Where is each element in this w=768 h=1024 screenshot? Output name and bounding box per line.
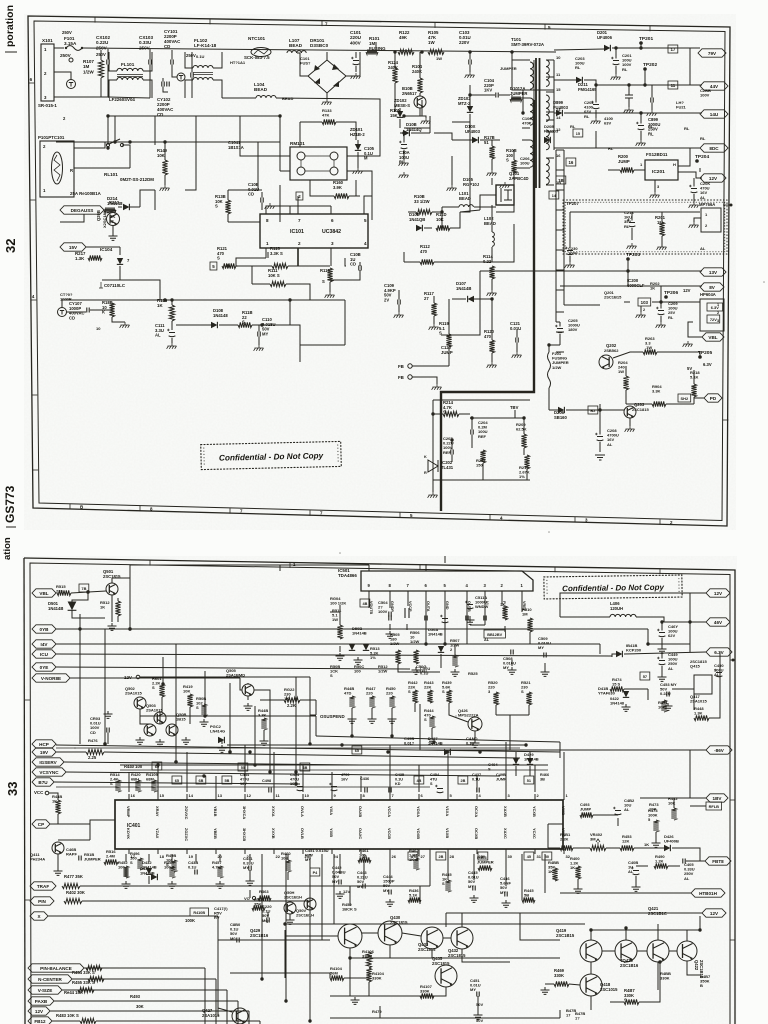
wire (171, 321, 173, 330)
diode D422 (623, 691, 629, 697)
junction (294, 782, 297, 785)
wire (432, 480, 434, 485)
svg-text:12V: 12V (709, 176, 718, 181)
wire (444, 598, 446, 644)
wire (107, 49, 109, 60)
wire (668, 865, 680, 867)
diode D431 (151, 874, 157, 880)
wire (310, 299, 345, 301)
svg-text:V-SIZE: V-SIZE (38, 988, 53, 993)
wire (615, 66, 617, 74)
wire (252, 283, 270, 285)
wire (514, 410, 516, 418)
wire (227, 214, 229, 222)
connector VBL out (702, 333, 724, 341)
wire rail stub (556, 149, 564, 151)
svg-text:C07110LC: C07110LC (104, 283, 126, 288)
wire (655, 832, 657, 840)
wire (185, 52, 193, 68)
wire (107, 65, 109, 98)
wire (471, 418, 473, 430)
wire bus 973 (230, 972, 330, 974)
wire (569, 245, 571, 249)
connector DEGAUSS (60, 206, 104, 214)
wire (315, 716, 317, 736)
svg-text:1W: 1W (436, 56, 442, 61)
net label 2Bb (436, 852, 446, 860)
wire (644, 69, 646, 85)
wire (637, 950, 647, 952)
wire I4V bus (56, 643, 600, 645)
svg-text:72V: 72V (710, 317, 717, 322)
wire (391, 708, 393, 716)
wire neutral return (276, 98, 380, 116)
wire (398, 296, 400, 300)
junction (228, 750, 231, 753)
wire (617, 818, 619, 826)
wire pin feed (157, 765, 159, 792)
wire (513, 182, 515, 205)
ground R469 (541, 987, 550, 994)
wire (559, 742, 561, 752)
capacitor C880 (237, 938, 239, 943)
ground C218 (627, 243, 637, 249)
svg-text:46V: 46V (714, 620, 723, 625)
wire (419, 886, 421, 904)
junction (627, 83, 630, 86)
resistor R507 (452, 655, 457, 667)
wire (491, 353, 493, 362)
svg-text:5B: 5B (224, 779, 229, 783)
transformer T101 secondary winding (546, 158, 549, 184)
svg-text:16: 16 (568, 160, 573, 165)
svg-text:250V: 250V (186, 53, 196, 58)
wire (469, 114, 471, 122)
wire (273, 792, 275, 800)
zone tick (32, 394, 38, 396)
connector TRAF (30, 882, 56, 890)
capacitor C104 (496, 93, 498, 98)
zone mark (732, 659, 735, 662)
wire (280, 155, 290, 157)
wire (162, 78, 164, 82)
net label P4 (310, 868, 320, 876)
zone tick (730, 659, 735, 661)
wire (661, 236, 663, 244)
wire (191, 52, 193, 73)
resistor R149 (162, 160, 167, 175)
svg-text:1BV: 1BV (713, 796, 723, 801)
svg-text:C49B0.01?: C49B0.01? (404, 736, 415, 746)
wire (289, 206, 291, 214)
wire (678, 148, 700, 166)
resistor R214 (443, 411, 459, 416)
resistor R445 (522, 897, 535, 902)
connector 14V (700, 110, 728, 118)
wire rail (689, 750, 691, 798)
wire (547, 824, 549, 848)
wire (229, 683, 231, 752)
svg-text:15: 15 (576, 132, 580, 136)
junction (78, 627, 81, 630)
svg-text:1: 1 (266, 241, 269, 246)
junction (268, 770, 271, 773)
resistor R453 (620, 845, 634, 850)
wire (474, 731, 476, 740)
wire (452, 121, 470, 123)
diode D10X (472, 137, 478, 143)
transformer T101 primary winding (530, 140, 533, 167)
confidential stamp box 2 (544, 575, 682, 599)
wire (407, 598, 409, 606)
diode D50B (349, 644, 355, 650)
wire (330, 248, 332, 266)
svg-text:C511A1000UWNDW: C511A1000UWNDW (475, 595, 489, 609)
svg-text:JUMPER: JUMPER (500, 66, 517, 71)
wire (267, 912, 269, 918)
net label 4Bc (300, 763, 310, 771)
wire (563, 792, 565, 800)
svg-text:OCXB: OCXB (474, 828, 479, 839)
junction (402, 114, 405, 117)
wire (287, 872, 289, 880)
RM101 contact (330, 152, 338, 160)
connector 79V (698, 49, 726, 57)
junction (86, 590, 89, 593)
wire (102, 272, 120, 280)
ground R113 (325, 292, 335, 298)
IC501 pin stub 8 (389, 591, 391, 598)
wire (418, 794, 420, 800)
wire (548, 823, 563, 825)
wire (492, 224, 514, 262)
net label 4Bb (414, 776, 424, 784)
wire (159, 712, 161, 724)
resistor R204 (623, 376, 628, 390)
wire (554, 79, 576, 81)
svg-text:17: 17 (131, 854, 136, 859)
wire (254, 706, 256, 765)
net label 7B (79, 584, 89, 592)
wire (185, 80, 193, 98)
wire (171, 338, 173, 343)
wire (466, 598, 468, 610)
wire (570, 211, 700, 213)
wire (403, 133, 405, 143)
transistor Q421 (647, 940, 669, 962)
zone tick (94, 17, 96, 23)
wire (636, 865, 648, 867)
capacitor C449 (659, 661, 666, 665)
test point TP202 (643, 62, 657, 71)
ground C441 (246, 878, 255, 885)
wire pin feed (389, 745, 391, 792)
wire (627, 259, 629, 271)
svg-text:65: 65 (175, 779, 179, 783)
capacitor C451 (477, 992, 479, 997)
ground R201 (657, 244, 667, 250)
wire (336, 122, 356, 140)
resistor R121 (222, 263, 236, 268)
svg-text:GS773: GS773 (3, 485, 17, 523)
wire (252, 325, 259, 332)
net label 45 (524, 852, 534, 860)
svg-text:C50G0.18U: C50G0.18U (416, 664, 427, 674)
T101 secondary pin 16 (546, 157, 554, 159)
junction (522, 416, 525, 419)
ground C451 (474, 1012, 483, 1019)
wire (460, 122, 470, 212)
wire (330, 995, 434, 997)
wire (548, 388, 550, 410)
svg-text:12V: 12V (124, 675, 132, 680)
connector V-NOISE (32, 674, 70, 682)
IC401 bottom pin 22 (273, 849, 275, 854)
wire (402, 933, 421, 936)
wire (320, 195, 334, 197)
resistor R498 (171, 860, 176, 872)
wire (228, 221, 260, 223)
terminal 12V (136, 675, 140, 679)
inductor L107 (287, 51, 306, 53)
svg-text:RL: RL (608, 146, 614, 151)
svg-text:RL101: RL101 (104, 172, 118, 177)
ground Q504 (136, 737, 145, 744)
svg-text:PD: PD (710, 396, 717, 401)
wire (280, 170, 290, 172)
connector 46V (706, 618, 730, 626)
wire (693, 370, 695, 384)
svg-text:R454 33K S: R454 33K S (72, 970, 95, 975)
wire (445, 913, 447, 927)
wire (115, 141, 165, 143)
junction (614, 46, 617, 49)
junction (688, 620, 691, 623)
test point TP201 (639, 36, 653, 45)
junction (660, 620, 663, 623)
wire (425, 564, 427, 571)
wire (651, 103, 653, 111)
wire (236, 265, 272, 267)
capacitor C437 (477, 788, 479, 793)
junction (443, 642, 446, 645)
wire (480, 139, 500, 141)
svg-text:6.3V: 6.3V (714, 650, 724, 655)
IC501 pin stub 4 (466, 591, 468, 598)
IC401 bottom pin 30 (505, 849, 507, 854)
wire (553, 60, 555, 150)
wire (411, 132, 430, 134)
wire pin drop (148, 854, 150, 862)
svg-text:R402 30K: R402 30K (66, 890, 85, 895)
wire (289, 914, 291, 917)
capacitor C121 (516, 338, 518, 343)
transformer T101 secondary winding (546, 60, 549, 86)
ground R447 (368, 716, 377, 723)
wire (389, 854, 391, 884)
wire pin8 (266, 206, 290, 214)
wire (634, 847, 664, 849)
transistor Q427 (232, 1008, 248, 1024)
wire (109, 80, 117, 98)
wire (164, 142, 166, 160)
wire (389, 792, 391, 800)
svg-text:R493: R493 (130, 994, 141, 999)
svg-text:15V: 15V (69, 245, 78, 250)
capacitor CY102b (167, 82, 169, 87)
wire (451, 180, 453, 185)
resistor R363 (258, 895, 271, 900)
resistor R460 (285, 860, 290, 872)
wire (165, 142, 258, 190)
resistor R113 (327, 268, 332, 282)
wire (626, 403, 640, 405)
capacitor C453 (667, 692, 669, 697)
wire (424, 227, 432, 229)
wire (629, 418, 631, 426)
resistor R442 (412, 690, 417, 703)
wire pin feed (128, 772, 130, 792)
svg-text:0YE: 0YE (40, 665, 49, 670)
ground Q10B (421, 118, 431, 124)
junction (294, 782, 297, 785)
junction (253, 763, 256, 766)
wire (442, 206, 459, 208)
diode D206 (558, 407, 564, 413)
wire (688, 322, 702, 337)
svg-text:DEGAUSS: DEGAUSS (71, 208, 94, 213)
junction (103, 742, 106, 745)
wire (434, 261, 492, 263)
capacitor C205 (557, 329, 564, 333)
IC401 bottom pin 20 (215, 849, 217, 854)
wire (89, 824, 91, 840)
svg-text:ICU: ICU (40, 652, 49, 657)
wire (248, 1011, 250, 1024)
wire (447, 854, 449, 880)
junction (113, 140, 116, 143)
transistor Q429 (338, 924, 362, 948)
svg-text:FS12BD11: FS12BD11 (646, 152, 668, 157)
wire (394, 83, 396, 112)
net label 2B (458, 776, 468, 784)
wire (512, 60, 522, 90)
confidential stamp box (201, 441, 342, 469)
connector V-SIZE (28, 986, 62, 994)
resistor R521 (526, 692, 531, 705)
capacitor C447 (659, 633, 666, 637)
wire (559, 742, 561, 758)
resistor R601 (159, 684, 164, 697)
wire (404, 128, 430, 133)
wire (554, 147, 596, 149)
net label 72V (707, 315, 720, 323)
wire (339, 854, 341, 874)
ground C103 (465, 72, 475, 78)
junction (174, 760, 177, 763)
svg-text:RFLB: RFLB (709, 804, 720, 809)
svg-text:2.25: 2.25 (88, 755, 97, 760)
wire (448, 362, 450, 366)
wire (505, 792, 507, 800)
svg-text:OCXA: OCXA (474, 806, 479, 817)
wire relay to RM101 (235, 141, 280, 143)
wire (129, 578, 131, 593)
zone tick (149, 560, 151, 566)
terminal FB1 (408, 364, 412, 368)
svg-text:50V: 50V (476, 1018, 483, 1023)
wire (628, 98, 630, 107)
svg-text:S: S (111, 219, 114, 224)
svg-text:3: 3 (717, 319, 719, 323)
wire (492, 261, 514, 263)
transistor Q201 2SC1815 (107, 213, 120, 226)
wire (471, 435, 473, 449)
wire (451, 156, 453, 180)
svg-text:14U: 14U (710, 112, 719, 117)
svg-text:Q50B1B15: Q50B1B15 (176, 712, 187, 722)
inductor FL101a (117, 68, 143, 71)
resistor R481 (560, 845, 573, 850)
test point TP204 (695, 154, 709, 163)
svg-text:TRAF: TRAF (37, 884, 49, 889)
svg-text:TP206: TP206 (664, 290, 678, 296)
wire (470, 624, 485, 626)
svg-text:3HXCB: 3HXCB (242, 828, 247, 841)
net label RFLB (706, 802, 722, 810)
resistor R263 (643, 349, 657, 354)
svg-text:ZOZXC: ZOZXC (184, 828, 189, 841)
wire (556, 321, 560, 323)
wire (491, 247, 493, 262)
wire (661, 666, 663, 674)
zone tick (33, 469, 39, 471)
svg-text:XAXC: XAXC (503, 828, 508, 839)
ground R114 (487, 290, 497, 296)
connector FBT8 (705, 857, 731, 865)
junction (524, 743, 527, 746)
test point TP203 (626, 252, 640, 261)
wire (345, 258, 346, 266)
wire (624, 688, 648, 690)
relay RM101 (290, 147, 347, 180)
wire (625, 366, 627, 376)
wire (425, 610, 427, 644)
svg-text:PAXB: PAXB (35, 999, 48, 1004)
wire (452, 298, 466, 300)
svg-text:VCCB: VCCB (387, 828, 392, 839)
connector VBL (32, 589, 56, 597)
svg-text:2: 2 (717, 311, 719, 315)
FL102 core (193, 73, 213, 75)
IC401 bottom pin 19 (186, 849, 188, 854)
capacitor CY101 (171, 60, 173, 65)
wire (62, 300, 160, 308)
svg-text:ation: ation (2, 537, 13, 560)
resistor R18B (109, 303, 114, 317)
resistor R463 (478, 865, 492, 870)
wire pin feed (244, 745, 246, 792)
wire (447, 792, 449, 800)
wire (523, 448, 525, 455)
wire (425, 598, 427, 610)
junction (470, 416, 473, 419)
wire (469, 85, 471, 95)
wire (599, 404, 601, 410)
ground C230 (565, 262, 575, 268)
T101 primary pin 4 (522, 127, 530, 129)
wire vertical comb b (285, 854, 287, 1001)
